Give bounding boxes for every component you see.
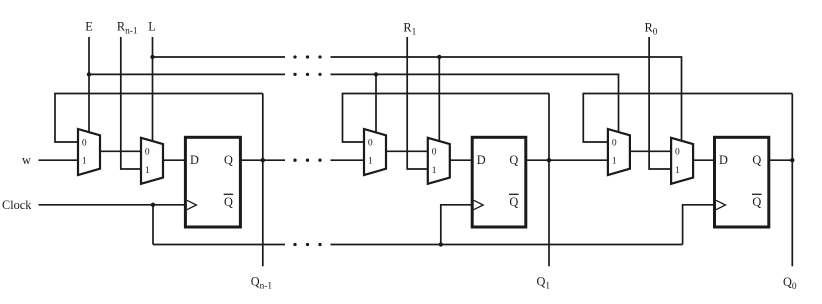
junction L select stage2 [437, 55, 441, 59]
svg-text:Clock: Clock [2, 198, 32, 212]
wire L input stub [152, 37, 154, 146]
svg-text:Rn-1: Rn-1 [117, 20, 138, 37]
svg-text:L: L [148, 20, 156, 34]
wire E input stub [88, 37, 90, 138]
wire clock riser stage1 [152, 205, 154, 245]
svg-text:1: 1 [432, 166, 437, 176]
svg-text:1: 1 [82, 157, 87, 167]
svg-text:R0: R0 [645, 21, 658, 38]
multiplexer mux1c [608, 129, 630, 175]
wire clock bus segment 2 [331, 244, 683, 246]
svg-text:D: D [719, 153, 728, 167]
svg-text:Q: Q [509, 195, 518, 209]
junction node Qn-1 [261, 158, 265, 162]
wire mux1a output to mux2a [100, 150, 141, 152]
wire L bus segment 1 [153, 56, 286, 58]
svg-text:Qn-1: Qn-1 [251, 275, 273, 292]
svg-text:1: 1 [675, 166, 680, 176]
svg-text:Q: Q [224, 195, 233, 209]
svg-text:0: 0 [675, 148, 680, 158]
flip-flop FF3 [715, 137, 769, 227]
wire w input [39, 159, 79, 161]
svg-text:1: 1 [368, 157, 373, 167]
wire clock bus segment 1 [153, 244, 285, 246]
junction node Q0 [790, 158, 794, 162]
svg-text:1: 1 [145, 166, 150, 176]
overbar Qbar FF1 [224, 193, 234, 195]
svg-text:E: E [85, 20, 93, 34]
wire feedback loop stage1 [55, 94, 263, 143]
wire L bus segment 2 with drop to stage3 mux select [331, 57, 682, 146]
svg-text:D: D [477, 153, 486, 167]
wire node Q0 vertical [791, 94, 793, 267]
ellipsis dots L bus [293, 55, 296, 58]
multiplexer mux2b [428, 138, 450, 184]
wire feedback loop stage3 [583, 94, 792, 143]
svg-text:0: 0 [432, 148, 437, 158]
flip-flop FF2 [472, 137, 526, 227]
svg-text:R1: R1 [403, 21, 416, 38]
clock triangle FF3 [716, 200, 726, 209]
junction clock stage2 [439, 242, 443, 246]
svg-text:w: w [22, 153, 31, 167]
multiplexer mux1a [78, 129, 100, 175]
wire L select stage2 [438, 57, 440, 146]
wire mux2b output to FF2 D [450, 159, 472, 161]
overbar Qbar FF2 [509, 193, 519, 195]
svg-text:Q: Q [752, 153, 761, 167]
svg-text:Q1: Q1 [537, 275, 551, 292]
junction L select stage1 [150, 55, 154, 59]
junction node Q1 [547, 158, 551, 162]
ellipsis dots shift line [293, 159, 296, 162]
multiplexer mux2a [141, 138, 163, 184]
svg-text:Q0: Q0 [783, 275, 797, 292]
flip-flop FF1 [185, 137, 240, 227]
wire mux2c output to FF3 D [693, 159, 714, 161]
svg-text:0: 0 [145, 148, 150, 158]
svg-text:0: 0 [82, 138, 87, 148]
wire clock elbow stage2 [441, 205, 472, 245]
wire E bus segment 2 with drop to stage3 mux select [331, 74, 619, 138]
ellipsis dots clock bus [293, 243, 296, 246]
svg-text:0: 0 [612, 138, 617, 148]
wire E select stage2 [375, 74, 377, 138]
ellipsis dots E bus [293, 73, 296, 76]
wire mux1c output to mux2c [630, 150, 671, 152]
wire clock elbow stage3 [683, 205, 715, 245]
wire mux2a output to FF1 D [163, 159, 185, 161]
clock triangle FF2 [474, 200, 484, 209]
wire FF3 Q output [769, 159, 793, 161]
clock triangle FF1 [187, 200, 197, 209]
svg-text:1: 1 [612, 157, 617, 167]
wire node Qn-1 vertical [262, 94, 264, 267]
wire Clock input [39, 204, 186, 206]
multiplexer mux1b [364, 129, 386, 175]
svg-text:0: 0 [368, 138, 373, 148]
wire mux1b output to mux2b [386, 150, 428, 152]
multiplexer mux2c [671, 138, 693, 184]
wire Rn-1 input to mux [121, 37, 141, 169]
wire R0 input to mux [649, 37, 671, 169]
wire node Q1 vertical [548, 94, 550, 267]
wire R1 input to mux [407, 37, 428, 169]
wire FF1 Q output [240, 159, 285, 161]
junction E select stage2 [374, 72, 378, 76]
svg-text:Q: Q [509, 153, 518, 167]
wire FF2 Q output to stage3 [526, 159, 608, 161]
junction clock stage1 [151, 203, 155, 207]
wire feedback loop stage2 [343, 94, 550, 143]
wire shift line into stage2 [331, 159, 365, 161]
junction E select stage1 [87, 72, 91, 76]
svg-text:D: D [190, 153, 199, 167]
overbar Qbar FF3 [752, 193, 762, 195]
svg-text:Q: Q [224, 153, 233, 167]
svg-text:Q: Q [752, 195, 761, 209]
wire E bus segment 1 [89, 73, 285, 75]
